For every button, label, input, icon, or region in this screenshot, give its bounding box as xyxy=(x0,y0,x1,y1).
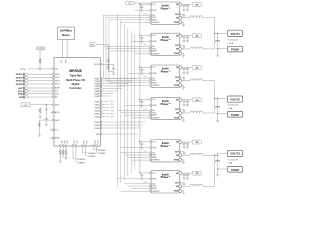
capacitor C-U2vcc xyxy=(140,5,143,8)
block5 VCC node xyxy=(139,141,141,143)
PWM pins group xyxy=(100,78,102,97)
svg-text:• 60A: • 60A xyxy=(228,107,233,110)
wires RA to gnd xyxy=(60,155,66,160)
TSEN pin labels xyxy=(94,122,100,136)
svg-text:CSP5: CSP5 xyxy=(110,113,114,115)
resistor R3 xyxy=(39,108,41,113)
svg-text:CSP4: CSP4 xyxy=(110,110,114,112)
power stage U6 xyxy=(150,140,182,162)
wire VCC to U3 xyxy=(140,35,150,38)
ground R5 xyxy=(38,133,41,136)
svg-text:PGND: PGND xyxy=(231,113,239,117)
svg-text:VDD33: VDD33 xyxy=(94,64,100,66)
wire U4 signals xyxy=(103,78,150,85)
pin IMON xyxy=(52,119,54,121)
svg-text:MP2928: MP2928 xyxy=(69,69,81,73)
capacitor CIN-U6a xyxy=(183,142,186,145)
svg-text:ISEN2: ISEN2 xyxy=(95,104,100,106)
pins bottom group A xyxy=(60,146,66,150)
pin VDD33 xyxy=(100,63,102,65)
pin VIN left xyxy=(52,68,54,70)
wire branch gnd xyxy=(45,121,47,123)
svg-text:TSEN/FLT: TSEN/FLT xyxy=(152,160,159,162)
svg-text:VOUT2: VOUT2 xyxy=(230,97,240,101)
capacitor C branch2 xyxy=(45,117,48,120)
capacitor CBST-U4 xyxy=(182,77,186,81)
ISEN wires xyxy=(102,102,109,117)
capacitor CIN-U2b xyxy=(186,5,189,8)
ground CIN-U6a xyxy=(183,145,186,148)
capacitor C1 VDD33 xyxy=(112,67,115,70)
ground CIN-U3a xyxy=(183,39,186,42)
svg-text:TSEN1: TSEN1 xyxy=(94,122,100,124)
U1 left pin internal labels xyxy=(55,69,60,140)
inductor L5 xyxy=(190,153,203,155)
capacitor COUT2 xyxy=(215,107,220,108)
svg-text:TSEN/FLT: TSEN/FLT xyxy=(152,191,159,193)
label VOSEN3 xyxy=(98,150,108,155)
ground rail3 xyxy=(216,173,219,176)
U6 VIN wire xyxy=(182,141,193,143)
wire L3 out xyxy=(203,80,215,82)
wire VCC to U2 xyxy=(140,3,150,6)
wire IMON xyxy=(39,120,54,122)
wire 3V3 to pullup xyxy=(97,44,109,58)
svg-text:PWM: PWM xyxy=(152,147,157,149)
power stage U2 xyxy=(150,2,182,24)
wire rail3 to output xyxy=(215,153,218,173)
resistor R2 xyxy=(39,59,41,64)
svg-text:SCL: SCL xyxy=(152,46,155,48)
wire SCL from master to U1 xyxy=(62,40,64,58)
I2C/PMBus master box xyxy=(58,27,75,40)
svg-text:GPIO1: GPIO1 xyxy=(55,74,60,76)
svg-text:VS3+: VS3+ xyxy=(93,141,95,145)
svg-text:Master: Master xyxy=(62,34,70,37)
wire VOUT3 xyxy=(218,152,227,154)
wire VCC to U6 xyxy=(140,141,150,144)
rail3 phase joining wire xyxy=(214,155,216,186)
svg-text:CSP1: CSP1 xyxy=(110,101,114,103)
capacitor CBST-U7 xyxy=(182,183,186,187)
svg-text:PWM: PWM xyxy=(152,73,157,75)
wire rail1 to output xyxy=(215,34,218,54)
wire U4 PWM xyxy=(128,72,151,74)
inductor L4 xyxy=(190,111,203,113)
wire VCC rail xyxy=(134,3,150,172)
svg-text:GPIO4: GPIO4 xyxy=(16,83,23,86)
connector ALERT xyxy=(18,87,54,90)
node COUT2 bottom xyxy=(217,113,219,115)
ground branch xyxy=(45,123,48,126)
node 3.3V branch xyxy=(46,104,48,106)
svg-text:Phase™: Phase™ xyxy=(161,144,172,148)
ground CIN-U2a xyxy=(183,8,186,11)
svg-text:PWM: PWM xyxy=(152,178,157,180)
svg-text:ISEN5: ISEN5 xyxy=(95,113,100,115)
svg-text:SDA: SDA xyxy=(18,93,23,96)
op IC U1 MP2928 xyxy=(54,58,100,146)
wire L6 out xyxy=(203,185,215,187)
svg-text:PH1: PH1 xyxy=(144,14,147,16)
connector GPIO3 xyxy=(16,80,55,83)
TSEN junction dots xyxy=(120,121,132,134)
svg-text:12Vin: 12Vin xyxy=(20,69,26,71)
wire U7 SW xyxy=(182,185,190,187)
svg-text:PGND: PGND xyxy=(231,168,239,172)
U3 VIN wire xyxy=(182,35,193,37)
svg-text:CSP2: CSP2 xyxy=(110,104,114,106)
power stage U3 xyxy=(150,33,182,55)
label VOUT3 xyxy=(227,150,242,156)
wires bottom group B xyxy=(73,146,76,162)
spec bullets rail3 xyxy=(228,160,239,165)
pin SCL top xyxy=(62,58,64,60)
pin VCC xyxy=(52,129,54,131)
rail1 phase joining wire xyxy=(214,18,216,49)
capacitor CIN-U4a xyxy=(183,68,186,71)
ground U7 PGND xyxy=(182,190,184,193)
wire PGND2 xyxy=(218,113,227,115)
wire U3 PWM xyxy=(131,40,150,42)
capacitor CIN-U7a xyxy=(183,173,186,176)
power stage U5 xyxy=(150,97,182,119)
svg-text:PWM: PWM xyxy=(152,10,157,12)
wire mid branch xyxy=(45,111,47,117)
svg-text:VCC: VCC xyxy=(128,3,133,5)
svg-text:PWM: PWM xyxy=(152,41,157,43)
connector jumper pill xyxy=(36,47,45,50)
node 12Vin divider xyxy=(39,68,41,70)
wire U7 PWM xyxy=(117,178,150,180)
svg-text:VIN: VIN xyxy=(195,142,199,144)
svg-text:ISEN1: ISEN1 xyxy=(95,101,100,103)
wire ADDR stub xyxy=(51,111,55,113)
ground rail2 xyxy=(216,119,219,122)
capacitor C-U5vcc xyxy=(140,101,143,104)
svg-text:GPIO3: GPIO3 xyxy=(55,80,60,82)
svg-text:GPIO3: GPIO3 xyxy=(16,81,23,83)
svg-text:ALT: ALT xyxy=(18,87,23,90)
wire U7 signals xyxy=(121,184,151,191)
ground R3 xyxy=(39,115,42,118)
spec bullets rail2 xyxy=(228,105,239,110)
wire VCC to U4 xyxy=(140,66,150,69)
wire SDA from master to U1 xyxy=(66,40,68,58)
wire U5 PWM xyxy=(124,105,150,107)
ground U5 PGND xyxy=(182,117,184,120)
U2 VIN wire xyxy=(182,4,193,6)
capacitor C-U3vcc xyxy=(140,36,143,39)
svg-text:GPIO1: GPIO1 xyxy=(16,74,23,76)
wire VOUT2 xyxy=(218,98,227,100)
ground rail1 xyxy=(216,54,219,57)
svg-text:PH4: PH4 xyxy=(144,109,147,111)
svg-text:TSEN/FLT: TSEN/FLT xyxy=(152,53,159,55)
ground CIN-U5a xyxy=(183,103,186,106)
capacitor CIN-U4b xyxy=(186,68,189,71)
svg-text:VS2+: VS2+ xyxy=(82,141,84,145)
pins U1 bottom xyxy=(59,145,97,147)
capacitor C-U6vcc xyxy=(140,143,143,146)
connector EN xyxy=(19,96,54,99)
capacitor CIN-U6b xyxy=(186,142,189,145)
ground C1 xyxy=(112,72,115,75)
wire VOUT1 xyxy=(218,33,227,35)
svg-text:Multi-Phase VR: Multi-Phase VR xyxy=(66,78,85,82)
VIN label U5 xyxy=(192,98,201,102)
ground C-U2vcc xyxy=(140,9,143,12)
svg-text:VOSEN3-: VOSEN3- xyxy=(98,153,107,155)
svg-text:EN: EN xyxy=(19,97,22,99)
svg-text:SCL: SCL xyxy=(152,152,155,154)
ground RA3 xyxy=(65,156,68,159)
label PGND3 xyxy=(227,167,242,173)
wire VCC to U5 xyxy=(140,99,150,102)
wire GND stub xyxy=(50,137,55,139)
svg-text:VIN: VIN xyxy=(195,100,199,102)
wire R5 gnd xyxy=(38,127,40,133)
label VOUT1 xyxy=(227,30,242,36)
ISEN pins group xyxy=(100,101,102,118)
svg-text:VS3-: VS3- xyxy=(96,141,98,145)
svg-text:TSEN3: TSEN3 xyxy=(94,128,100,130)
resistor RA1 xyxy=(59,150,61,155)
ground CIN-U6b xyxy=(186,145,189,148)
resistor RA2 xyxy=(62,150,64,155)
svg-text:3.3V: 3.3V xyxy=(23,105,28,107)
rail2 phase joining wire xyxy=(214,81,216,113)
node COUT1 bottom xyxy=(217,48,219,50)
block4 VCC node xyxy=(139,99,141,101)
svg-text:VIN: VIN xyxy=(195,68,199,70)
power stage U7 xyxy=(150,171,182,193)
wire U5 SW xyxy=(182,112,190,114)
svg-text:ISEN4: ISEN4 xyxy=(95,110,100,112)
svg-text:SCL: SCL xyxy=(61,60,63,63)
svg-text:PGND: PGND xyxy=(231,48,239,52)
VIN label U2 xyxy=(192,3,201,7)
ground CIN-U4b xyxy=(186,71,189,74)
wires bottom group C xyxy=(83,146,87,156)
svg-text:SCL: SCL xyxy=(55,91,58,93)
connector GPIO4 xyxy=(16,83,55,86)
ground CIN-U5b xyxy=(186,103,189,106)
block3 VCC node xyxy=(139,67,141,69)
inductor L3 xyxy=(190,79,203,81)
label VOSEN1 xyxy=(77,159,87,164)
VIN label U3 xyxy=(192,34,201,38)
label PGND2 xyxy=(227,112,242,118)
svg-text:PH6: PH6 xyxy=(144,182,147,184)
inductor L1 xyxy=(190,16,203,18)
wire U6 signals xyxy=(121,153,151,160)
node rail3 xyxy=(214,154,216,156)
resistor R5 xyxy=(38,122,40,127)
svg-text:Phase™: Phase™ xyxy=(161,38,172,42)
label VOUT2 xyxy=(227,96,242,102)
node rail1 xyxy=(214,33,216,35)
capacitor COUT3 xyxy=(215,161,220,162)
capacitor CBST-U5 xyxy=(182,110,186,114)
svg-text:PWM8: PWM8 xyxy=(94,96,99,98)
svg-text:GPIO2: GPIO2 xyxy=(55,77,60,79)
PWM wires to bus xyxy=(102,79,135,97)
wire U6 PWM xyxy=(121,147,151,149)
svg-text:VOSEN3+: VOSEN3+ xyxy=(98,150,108,152)
svg-text:GPIO4: GPIO4 xyxy=(55,84,60,86)
svg-text:PH2: PH2 xyxy=(144,45,147,47)
svg-text:VIN: VIN xyxy=(195,36,199,38)
capacitor CBST-U6 xyxy=(182,152,186,156)
wire U6 SW xyxy=(182,154,190,156)
capacitor C branch1 xyxy=(45,108,48,111)
inductor L6 xyxy=(190,184,203,186)
svg-text:VS2-: VS2- xyxy=(85,141,87,145)
svg-text:CSP6: CSP6 xyxy=(110,116,114,118)
svg-text:VOSEN1-: VOSEN1- xyxy=(77,162,86,164)
wire L4 out xyxy=(203,112,215,114)
svg-text:• 100A: • 100A xyxy=(228,42,234,45)
VIN label U4 xyxy=(192,66,201,70)
ISEN net labels xyxy=(110,101,114,118)
ground U2 PGND xyxy=(182,21,184,24)
resistor RA3 xyxy=(65,150,67,155)
node COUT1 top xyxy=(217,33,219,35)
svg-text:GPIO2: GPIO2 xyxy=(16,78,23,80)
connector GPIO1 xyxy=(16,73,55,76)
ground C-U5vcc xyxy=(140,104,143,107)
U1 top pin internal labels xyxy=(61,59,68,63)
wire R1b down xyxy=(108,69,113,71)
wire U3 SW xyxy=(182,48,190,50)
resistor R1b xyxy=(107,65,109,70)
wires bottom group D xyxy=(94,146,97,153)
capacitor CIN-U3a xyxy=(183,36,186,39)
node COUT2 top xyxy=(217,98,219,100)
wire U2 PWM xyxy=(135,9,151,11)
svg-text:TSEN/FLT: TSEN/FLT xyxy=(152,85,159,87)
VIN label U7 xyxy=(192,171,201,175)
ground CIN-U7a xyxy=(183,176,186,179)
svg-text:PWM: PWM xyxy=(152,105,157,107)
ground C-U6vcc xyxy=(140,146,143,149)
wire rail2 to output xyxy=(215,99,218,119)
connector GPIO2 xyxy=(16,76,55,79)
svg-text:Phase™: Phase™ xyxy=(161,175,172,179)
svg-text:Phase™: Phase™ xyxy=(161,70,172,74)
svg-text:VS1+: VS1+ xyxy=(73,141,75,145)
svg-text:TSEN2: TSEN2 xyxy=(94,125,100,127)
svg-text:VOSEN2+: VOSEN2+ xyxy=(88,153,98,155)
wire 12Vin to pin VIN xyxy=(28,68,55,70)
wire PGND1 xyxy=(218,48,227,50)
svg-text:TSEN/FLT: TSEN/FLT xyxy=(152,118,159,120)
wire VCC to U7 xyxy=(140,172,150,175)
svg-text:VOSEN2-: VOSEN2- xyxy=(88,156,97,158)
wire L5 out xyxy=(203,154,215,156)
PWM pin labels xyxy=(94,78,99,98)
ground CIN-U3b xyxy=(186,39,189,42)
connector SDA xyxy=(18,93,55,96)
U7 VIN wire xyxy=(182,172,193,174)
svg-text:ISEN3: ISEN3 xyxy=(95,107,100,109)
svg-text:SCL: SCL xyxy=(18,91,23,93)
wire U5 signals xyxy=(117,111,150,118)
pin ADDR xyxy=(52,111,54,113)
svg-text:Phase™: Phase™ xyxy=(161,102,172,106)
ground U3 PGND xyxy=(182,53,184,56)
capacitor CBST-U2 xyxy=(182,14,186,18)
ground C-U7vcc xyxy=(140,177,143,180)
svg-text:VS1-: VS1- xyxy=(76,141,78,145)
svg-text:SCL: SCL xyxy=(152,110,155,112)
wire U3 signals xyxy=(103,46,150,53)
capacitor CIN-U5a xyxy=(183,100,186,103)
capacitor C-U7vcc xyxy=(140,174,143,177)
block1 VCC node xyxy=(139,4,141,6)
svg-text:Triple-Rail: Triple-Rail xyxy=(69,74,82,78)
capacitor COUT1 xyxy=(215,41,220,42)
ISEN pin labels xyxy=(95,101,100,118)
svg-text:• 0.25V-2.3V: • 0.25V-2.3V xyxy=(228,40,239,42)
svg-text:SCL: SCL xyxy=(152,15,155,17)
U5 VIN wire xyxy=(182,99,193,101)
svg-text:Phase™: Phase™ xyxy=(161,7,172,11)
svg-text:SCL: SCL xyxy=(152,78,155,80)
svg-text:I2C/PMBus: I2C/PMBus xyxy=(60,31,73,33)
capacitor CIN-U7b xyxy=(186,173,189,176)
node VDD33 xyxy=(108,64,109,65)
capacitor CIN-U5b xyxy=(186,100,189,103)
ground CIN-U4a xyxy=(183,71,186,74)
wire branch down xyxy=(45,105,47,108)
svg-text:VIN: VIN xyxy=(195,5,199,7)
VCC rail xyxy=(126,1,135,5)
wire U2 SW xyxy=(182,17,190,19)
power stage U4 xyxy=(150,65,182,87)
wire VCC stub xyxy=(50,129,55,131)
svg-text:Controller: Controller xyxy=(69,86,81,90)
power flag 3V3 xyxy=(90,42,97,46)
spec bullets rail1 xyxy=(228,40,239,45)
ground U6 PGND xyxy=(182,159,184,162)
block6 VCC node xyxy=(139,172,141,174)
ground CIN-U7b xyxy=(186,176,189,179)
svg-text:• 0.25V-2.3V: • 0.25V-2.3V xyxy=(228,160,239,162)
svg-text:SCL: SCL xyxy=(152,183,155,185)
svg-text:• 0.25V-2.3V: • 0.25V-2.3V xyxy=(228,105,239,107)
capacitor C-U4vcc xyxy=(140,68,143,71)
block2 VCC node xyxy=(139,35,141,37)
capacitor CIN-U2a xyxy=(183,5,186,8)
node COUT3 bottom xyxy=(217,168,219,170)
wire R1 to VDD33 pin xyxy=(101,63,113,67)
svg-text:VIN: VIN xyxy=(195,173,199,175)
node rail2 xyxy=(214,98,216,100)
pin GND left xyxy=(52,137,54,139)
TSEN pins group xyxy=(100,121,102,135)
U4 VIN wire xyxy=(182,67,193,69)
svg-text:Digital: Digital xyxy=(72,82,80,86)
box 3.3V xyxy=(21,103,54,107)
capacitor CBST-U3 xyxy=(182,45,186,49)
label PGND1 xyxy=(227,46,242,52)
label VOSEN2 xyxy=(88,153,98,158)
bus verticals xyxy=(103,14,135,187)
svg-text:VOUT3: VOUT3 xyxy=(230,152,240,156)
ground CIN-U2b xyxy=(186,8,189,11)
